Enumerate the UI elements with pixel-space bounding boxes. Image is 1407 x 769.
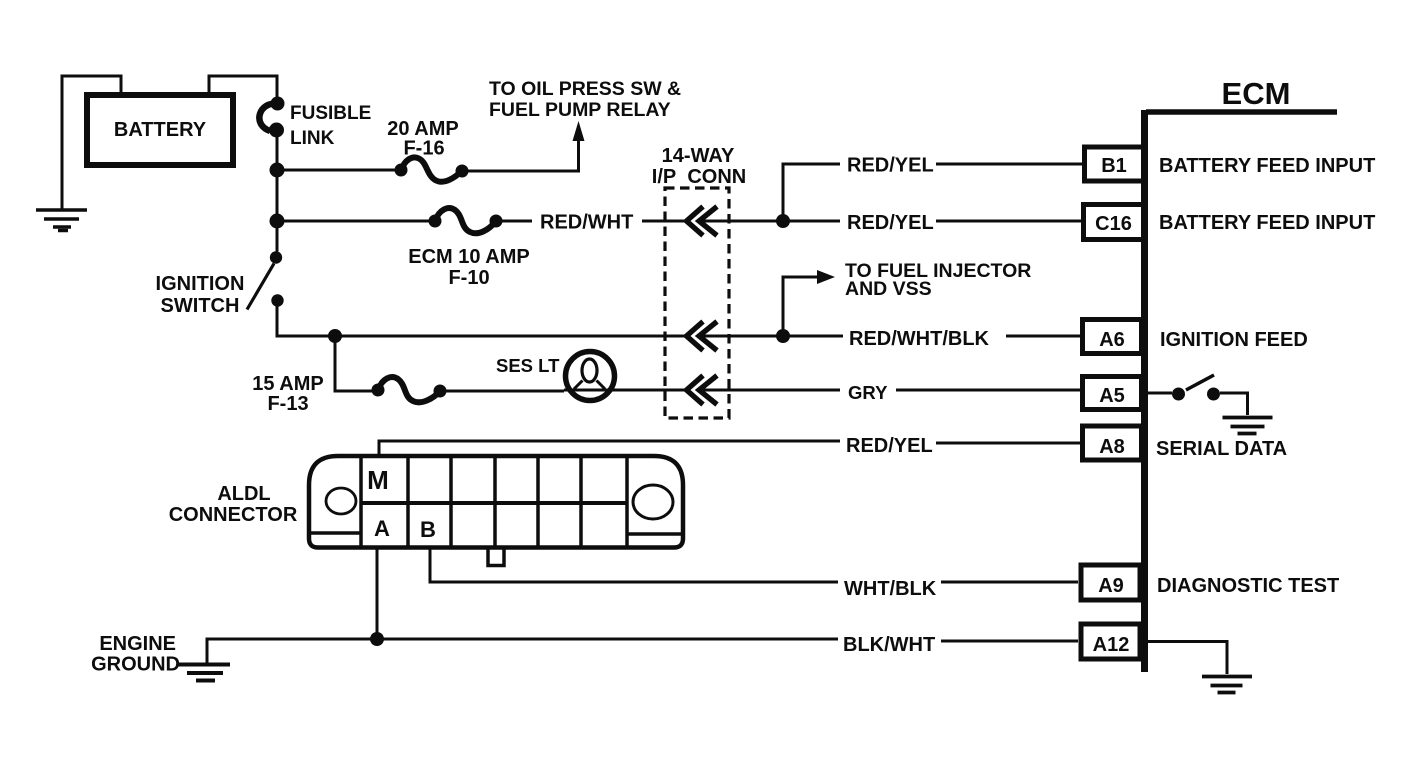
svg-text:IGNITION FEED: IGNITION FEED [1160,329,1308,351]
fuse F-13 [252,373,446,415]
pin box A9 [1081,565,1140,600]
wire ALDL pin B diagnostic [430,547,838,582]
node junction B1/C16 [776,214,790,228]
svg-text:BLK/WHT: BLK/WHT [843,634,935,656]
svg-text:F-10: F-10 [448,267,489,289]
node junction 20A feed [270,163,285,178]
switch A5 to ground [1148,375,1248,415]
svg-text:FUEL PUMP RELAY: FUEL PUMP RELAY [489,99,671,121]
node junction 15A branch [328,329,342,343]
svg-text:ALDL: ALDL [217,483,270,505]
ECM top bar [1146,109,1337,115]
label ALDL connector [169,483,298,526]
wire RED/WHT/BLK to A6 box [1006,335,1080,338]
pin box B1 [1085,147,1144,181]
svg-text:ECM 10 AMP: ECM 10 AMP [408,246,530,268]
svg-text:F-13: F-13 [267,393,308,415]
svg-text:FUSIBLE: FUSIBLE [290,103,371,124]
svg-text:SWITCH: SWITCH [161,295,240,317]
wire engine ground to A12 [207,639,838,664]
wire battery positive terminal to main bus [209,76,277,101]
ground A12 [1202,677,1252,693]
svg-text:B1: B1 [1101,155,1127,177]
wire GRY to A5 box [896,389,1081,392]
wire 15 AMP branch down [335,336,378,391]
wire BLK/WHT to A12 box [941,640,1078,643]
svg-text:GRY: GRY [848,382,888,403]
svg-text:BATTERY FEED INPUT: BATTERY FEED INPUT [1159,155,1375,177]
svg-text:A: A [374,516,390,541]
wire RED/WHT into connector [642,220,686,223]
arrowhead to fuel injector [817,270,835,284]
wire branch arrow to fuel injector [783,277,820,336]
wire ALDL pin A to engine ground [376,547,379,639]
svg-text:RED/WHT: RED/WHT [540,212,633,234]
wire WHT/BLK to A9 box [941,581,1078,584]
svg-text:15 AMP: 15 AMP [252,373,324,395]
svg-text:BATTERY FEED INPUT: BATTERY FEED INPUT [1159,212,1375,234]
node junction engine ground [370,632,384,646]
ground engine [177,665,230,681]
svg-text:A12: A12 [1093,634,1130,656]
wire A12 to ground [1148,642,1227,675]
node junction fuel injector branch [776,329,790,343]
wire A6 from connector to junction [699,335,843,338]
svg-text:AND VSS: AND VSS [845,278,932,300]
wire fuse F-13 to SES lamp [440,390,564,393]
svg-text:DIAGNOSTIC TEST: DIAGNOSTIC TEST [1157,575,1339,597]
ground battery [36,210,87,231]
svg-text:A8: A8 [1099,436,1125,458]
svg-text:RED/WHT/BLK: RED/WHT/BLK [849,328,990,350]
svg-text:IGNITION: IGNITION [156,273,245,295]
fusible link [259,97,371,150]
battery BATTERY [87,95,233,165]
label to fuel injector [845,260,1031,300]
svg-text:C16: C16 [1095,213,1132,235]
svg-text:RED/YEL: RED/YEL [846,435,933,457]
ECM module line [1141,110,1148,672]
svg-text:RED/YEL: RED/YEL [847,212,934,234]
node junction ECM fuse feed [270,214,285,229]
wire battery negative terminal to ground [62,76,121,210]
wire serial data from ALDL pin M [379,441,840,457]
chevron connector pin C16 wire [687,207,718,236]
pin box A8 [1083,426,1142,460]
wire GRY from connector [699,389,840,392]
svg-text:ECM: ECM [1222,76,1291,111]
svg-text:14-WAY: 14-WAY [662,145,735,167]
svg-text:BATTERY: BATTERY [114,119,207,141]
svg-text:M: M [367,465,389,495]
chevron connector pin A5 wire [687,376,718,405]
label to oil press sw [489,78,681,121]
wire ignition feed [277,301,686,336]
wire RED/YEL to C16 box [936,220,1081,223]
pin box C16 [1084,205,1144,240]
wire ECM 10 AMP circuit [277,220,435,223]
svg-text:SERIAL DATA: SERIAL DATA [1156,438,1287,460]
wire fuse F-16 to oil press sw [462,141,579,171]
arrowhead up to oil press sw [573,121,585,141]
svg-text:A9: A9 [1098,575,1124,597]
pin box A6 [1083,320,1142,354]
svg-text:A6: A6 [1099,329,1125,351]
connector 14-way I/P [652,145,746,418]
svg-text:RED/YEL: RED/YEL [847,155,934,177]
ground A5 [1223,418,1273,434]
fuse F-16 [387,118,468,182]
pin box A12 [1081,624,1140,659]
svg-text:I/P CONN: I/P CONN [652,166,746,188]
ignition switch [156,251,284,317]
svg-text:SES LT: SES LT [496,355,560,376]
wire RED/YEL to A8 box [936,442,1080,445]
svg-text:WHT/BLK: WHT/BLK [844,578,937,600]
svg-text:GROUND: GROUND [91,654,180,676]
wire branch to B1 [783,164,840,221]
svg-text:B: B [420,517,436,542]
svg-text:A5: A5 [1099,385,1125,407]
svg-text:LINK: LINK [290,128,335,149]
wire fuse F-10 to I/P connector [496,220,532,223]
wire 20 AMP circuit [277,169,401,172]
chevron connector pin A6 wire [687,322,718,351]
wire main bus [276,129,279,252]
wire C16 from connector to junction [699,220,840,223]
svg-text:ENGINE: ENGINE [99,633,176,655]
ALDL connector body [309,456,683,566]
wire RED/YEL to B1 box [936,163,1082,166]
label engine ground [91,633,180,676]
fuse F-10 [408,208,530,289]
lamp SES LT [496,352,615,401]
svg-text:CONNECTOR: CONNECTOR [169,504,298,526]
svg-text:TO OIL PRESS SW &: TO OIL PRESS SW & [489,78,681,100]
svg-text:F-16: F-16 [403,138,444,160]
pin box A5 [1083,377,1142,410]
